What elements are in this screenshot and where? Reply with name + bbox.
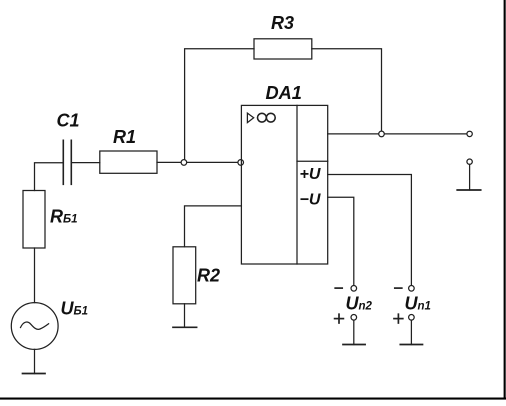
wire source to ground xyxy=(34,349,36,373)
ground under Un1 xyxy=(400,344,422,346)
terminal Un1 minus xyxy=(409,286,415,292)
terminal Un2 minus xyxy=(351,286,357,292)
label minus Un2 xyxy=(335,287,342,289)
ground right xyxy=(457,189,481,191)
wire R2 to ground xyxy=(184,304,186,328)
svg-text:R2: R2 xyxy=(197,266,220,286)
resistor R3 xyxy=(254,39,312,59)
label plus Un1 xyxy=(394,314,403,323)
terminal common xyxy=(467,159,472,164)
wire RБ1 to source UБ1 xyxy=(34,248,36,303)
wire from left branch to C1 xyxy=(35,163,64,191)
svg-text:+U: +U xyxy=(300,166,321,183)
svg-text:C1: C1 xyxy=(57,111,80,131)
capacitor C1 xyxy=(63,140,71,184)
wire +U pin to Un1 xyxy=(328,175,412,286)
resistor RБ1 xyxy=(23,191,45,249)
node inverting input xyxy=(238,160,244,166)
terminal Un1 plus xyxy=(409,315,415,321)
wire non-inverting input from R2 xyxy=(185,206,242,247)
wire output xyxy=(328,133,467,135)
resistor R1 xyxy=(100,151,157,173)
source UБ1 xyxy=(11,303,58,350)
op-amp DA1 xyxy=(241,105,327,264)
ground under Un2 xyxy=(343,344,365,346)
terminal Un2 plus xyxy=(351,315,357,321)
svg-text:−U: −U xyxy=(300,192,321,209)
svg-text:R1: R1 xyxy=(113,127,136,147)
wire Un2 to ground xyxy=(353,320,355,344)
wire common terminal to ground xyxy=(469,164,471,190)
wire -U pin to Un2 xyxy=(328,197,354,285)
ground under UБ1 xyxy=(23,373,46,375)
wire R1 to inverting input xyxy=(157,161,241,163)
svg-text:R3: R3 xyxy=(271,13,294,33)
label minus Un1 xyxy=(395,287,402,289)
resistor R2 xyxy=(173,247,196,304)
node A junction xyxy=(181,160,187,166)
ground under R2 xyxy=(173,326,197,328)
svg-text:DA1: DA1 xyxy=(266,83,302,103)
node output junction xyxy=(379,131,385,137)
wire from R3 right down to output node xyxy=(312,49,382,134)
wire from node A up to R3 left xyxy=(185,49,254,163)
label plus Un2 xyxy=(335,314,344,323)
wire C1 to R1 xyxy=(71,162,100,164)
wire Un1 to ground xyxy=(410,320,412,344)
terminal output xyxy=(467,131,472,136)
